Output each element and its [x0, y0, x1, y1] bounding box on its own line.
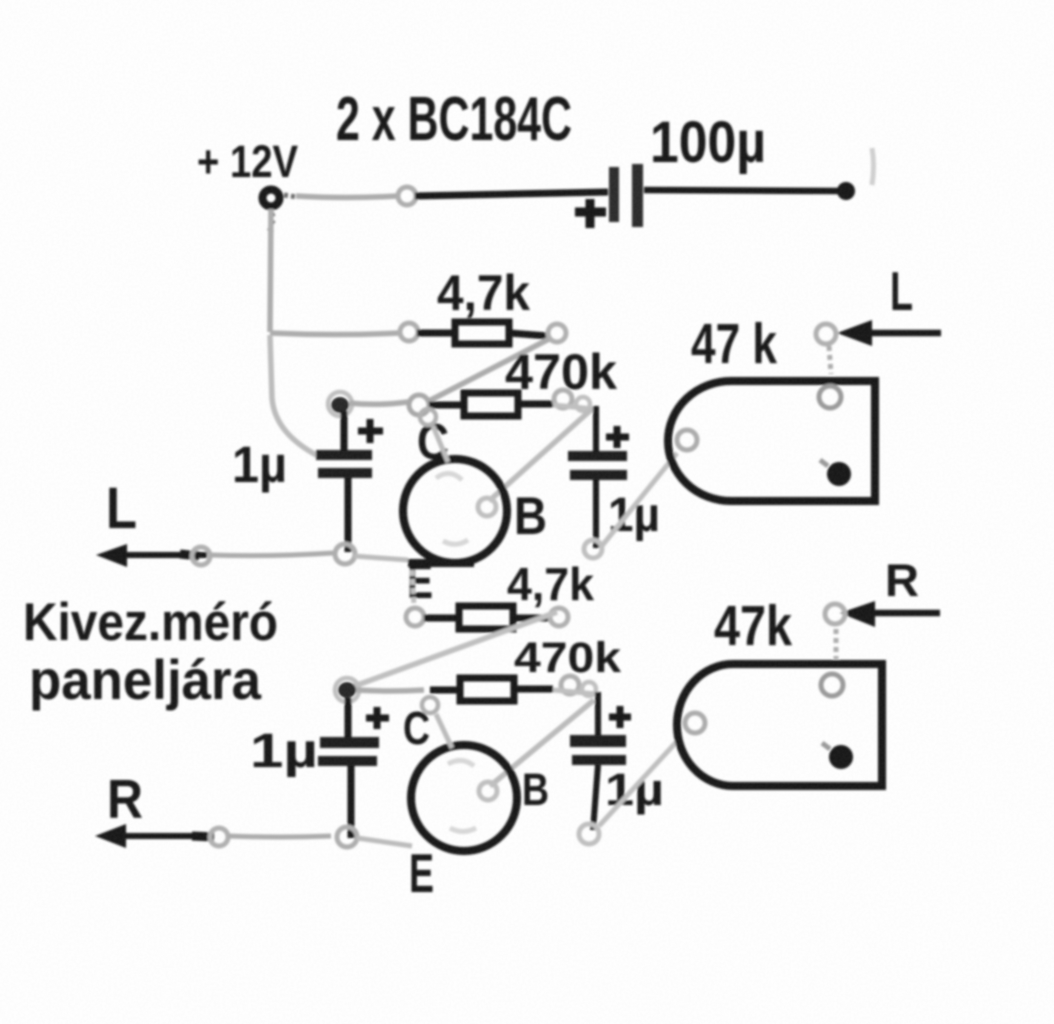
resistor 470k (lower): [430, 687, 460, 694]
plus sign 100u: [575, 199, 606, 228]
capacitor 1u left lower plates: [320, 737, 379, 748]
top lead: [593, 406, 599, 452]
node open circle 4.7k lower left: [406, 608, 424, 626]
capacitor 100u plates: [609, 167, 619, 222]
node open circle before 100u wire: [398, 187, 416, 205]
node open circle at 470k left: [409, 395, 429, 415]
junction blob collector node: [328, 392, 352, 416]
transistor Q1 body circle: [403, 459, 507, 563]
pot2 case dot: [829, 745, 853, 769]
wire L output (faint): [210, 553, 333, 556]
wire emitter2 to output node (faint): [357, 838, 412, 846]
resistor 4.7k (upper): [417, 330, 455, 337]
node open circle at 4.7k left: [400, 323, 418, 341]
output L arrow: [120, 552, 207, 558]
bottom lead: [593, 765, 598, 830]
plus sign: [366, 707, 389, 729]
plus sign: [358, 419, 383, 443]
wire 100u to output dot: [644, 190, 838, 191]
bottom lead: [593, 480, 599, 548]
potentiometer 47k (upper) body: [668, 381, 875, 501]
top lead: [345, 698, 352, 737]
faint marks inside Q2: [448, 760, 474, 766]
wire 470k right to base cap (faint): [553, 405, 594, 409]
node circle at cap bottom + wire to pot2 wiper (faint): [579, 824, 599, 844]
wire junction2 to 470k left (faint): [356, 690, 424, 691]
node +12V terminal ring: [263, 190, 280, 207]
wire +12V node to 100u (faint pencil): [284, 195, 297, 197]
bottom lead: [345, 478, 352, 552]
node open circle at 4.7k right: [548, 324, 566, 342]
capacitor 1u (right, lower) plates: [570, 735, 626, 747]
top lead: [595, 692, 601, 735]
capacitor 1u (right, upper) plates: [568, 451, 627, 461]
wire rail to 4.7k (faint): [270, 333, 399, 335]
wire cap to base2 diagonal (faint): [490, 700, 594, 786]
node output dot: [837, 182, 855, 200]
capacitor 1u left upper plates: [316, 450, 372, 460]
wire rail curving down to C node (faint): [270, 335, 318, 456]
node open circles at 470k lower right: [561, 676, 579, 694]
node open circle at R input: [825, 604, 845, 624]
collector lead Q1 (faint): [433, 426, 448, 462]
wire to capacitor C1: [415, 192, 608, 196]
plus sign: [609, 706, 631, 728]
wire R input to pot2 (faint): [834, 629, 839, 659]
node open circle at arrow end: [192, 547, 210, 565]
collector lead Q2 (faint): [436, 714, 452, 748]
node open circle 4.7k lower right: [550, 608, 568, 626]
faint smudge: [872, 148, 874, 185]
faint marks inside Q1: [436, 473, 462, 480]
node circle at cap bottom + wire to pot1 wiper (faint): [584, 540, 602, 558]
pot1 case dot: [827, 462, 851, 486]
wire +12V down rail (faint): [270, 209, 271, 332]
input L arrow: [858, 330, 941, 337]
wire emitter to output node (faint): [354, 556, 408, 560]
potentiometer 47k (lower) body: [677, 664, 882, 786]
wire R output (faint): [228, 836, 331, 837]
bottom lead: [348, 766, 355, 838]
node open circle at cap lead: [337, 827, 357, 847]
output R arrow: [119, 833, 214, 839]
pot2 terminal left (wiper): [685, 713, 705, 733]
wire L input to pot1 (faint): [829, 346, 831, 374]
wire 4.7k right diagonal to junction2 (faint): [352, 612, 557, 687]
wire junction to 470k left (faint): [349, 402, 408, 404]
emitter lead bar Q1: [408, 559, 474, 567]
wire 4.7k right diagonal to collector node (faint): [427, 339, 549, 402]
node open circle at L input: [816, 324, 836, 344]
pot2 terminal top-right: [821, 674, 843, 696]
node open circle at cap lead: [335, 544, 355, 564]
plus sign: [606, 426, 629, 448]
wire cap to base diagonal (faint): [489, 409, 592, 501]
wire E1 to 4.7k lower (faint): [412, 570, 414, 606]
wire 470k right to cap (faint): [553, 690, 596, 694]
resistor 4.7k (lower): [424, 615, 459, 622]
input R arrow: [861, 610, 940, 617]
pot1 terminal left (wiper): [677, 430, 697, 450]
pot1 terminal top-right: [819, 386, 841, 408]
node open circle at arrow end: [210, 828, 228, 846]
transistor Q2 body circle: [411, 745, 517, 851]
node open circles at 470k right: [554, 390, 572, 408]
top lead: [341, 411, 348, 451]
resistor 470k (upper): [429, 402, 464, 409]
junction blob 2: [335, 678, 359, 702]
